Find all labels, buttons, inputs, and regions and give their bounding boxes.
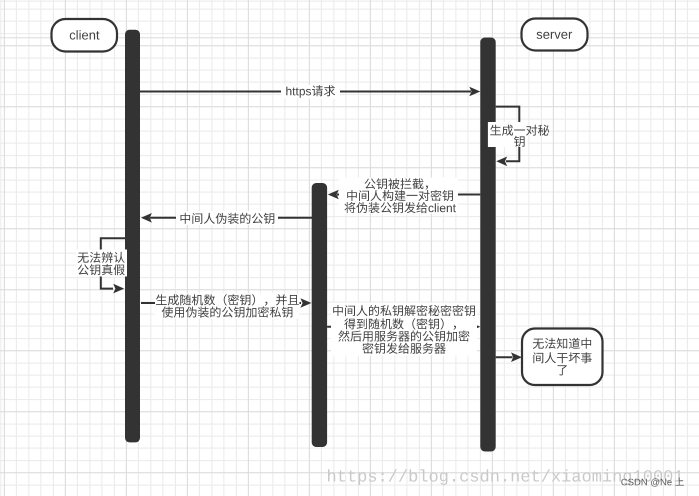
note box: server cannot know — [522, 329, 603, 386]
label text: middle-man decrypts — [333, 305, 475, 354]
label background: generate key pair — [488, 122, 528, 147]
wire: server self-loop (generate key pair) — [496, 107, 520, 162]
actor box: client — [52, 19, 118, 52]
wire: random number arrow client->middle-man — [141, 302, 301, 304]
label background: intercepted text — [339, 178, 458, 214]
label background: middle-man fake key — [176, 211, 278, 225]
watermark: blog url — [328, 469, 683, 485]
lifeline activation bar: middle-man — [312, 183, 327, 447]
label text: middle-man fake public key — [181, 213, 275, 224]
wire: client self-loop (cannot verify key) — [101, 238, 125, 288]
label background: private key decrypt — [331, 303, 477, 356]
wire: middle-man fake key arrow middle-man->client — [150, 217, 312, 219]
label text: public key intercepted — [345, 178, 456, 213]
label text: generate key pair — [490, 125, 549, 147]
wire: re-encrypted key arrow middle-man->server — [327, 326, 470, 328]
watermark: csdn credit — [621, 478, 684, 487]
label text: server cannot know — [533, 338, 592, 376]
lifeline activation bar: client — [125, 30, 140, 443]
label text: server — [537, 32, 573, 39]
label text: https request — [286, 85, 335, 98]
label background: https request — [281, 85, 340, 99]
lifeline activation bar: server — [480, 38, 495, 452]
wire: server->note arrow — [496, 356, 513, 358]
wire: fake public key arrow server->middle-man — [337, 194, 480, 196]
label text: generate random number — [156, 294, 299, 318]
label text: cannot verify key — [78, 252, 125, 275]
label background: cannot verify — [77, 250, 128, 277]
actor box: server — [522, 19, 588, 51]
wire: https request arrow client->server — [140, 91, 471, 93]
label text: client — [70, 30, 100, 40]
label background: random number — [155, 294, 300, 319]
